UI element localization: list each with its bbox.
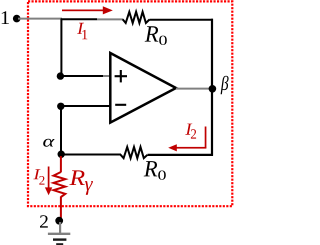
current arrow I1	[62, 6, 113, 14]
ground stem	[59, 222, 61, 234]
wire - terminal down to node alpha	[60, 106, 62, 154]
node alpha dot	[58, 151, 65, 158]
node beta dot	[209, 85, 217, 93]
wire - terminal to op-amp	[61, 105, 110, 107]
wire resistor to bottom-right corner	[148, 154, 214, 156]
wire junction down to op-amp + input	[60, 19, 62, 77]
resistor R0 (bottom)	[121, 147, 148, 158]
current arrow I2 (right, pointing left)	[168, 127, 206, 152]
label R-gamma	[69, 170, 84, 185]
op-amp + sign	[115, 70, 127, 82]
op-amp + input terminal dot	[57, 72, 64, 79]
resistor R0 (top)	[123, 12, 150, 23]
wire resistor to top-right corner	[150, 19, 214, 21]
wire node beta down to bottom-right corner	[211, 89, 213, 156]
current arrow I2 (left, pointing down)	[45, 167, 52, 196]
wire node1 to junction (gray lead)	[18, 18, 62, 20]
resistor R-gamma lead down to node 2	[60, 197, 62, 219]
ground bar 3	[56, 243, 63, 245]
wire + terminal to op-amp (black part)	[61, 75, 103, 77]
node 1 terminal dot	[13, 15, 21, 23]
ground bar 2	[53, 238, 66, 240]
resistor R-gamma zigzag	[54, 172, 66, 197]
resistor R-gamma (red, vertical) lead from alpha	[60, 156, 62, 172]
op-amp U1 triangle	[110, 53, 176, 123]
dashed feedback-network boundary box	[28, 1, 232, 206]
resistor R0 top left lead (gray)	[97, 18, 123, 20]
label I2 (left)	[33, 169, 44, 184]
op-amp output lead (gray) to node beta	[176, 88, 210, 90]
port label 2	[40, 215, 48, 227]
port label 1	[2, 11, 9, 24]
label I2 (right)	[185, 124, 196, 139]
node 2 terminal dot	[55, 217, 63, 225]
label R0 (bottom)	[144, 161, 158, 176]
wire junction to resistor R0 top	[61, 18, 97, 20]
op-amp - input terminal dot	[57, 103, 64, 110]
op-amp + input lead (gray stub)	[103, 75, 110, 77]
label alpha	[43, 139, 54, 147]
op-amp - sign	[115, 104, 126, 106]
label R0 (top)	[145, 26, 159, 41]
ground bar 1	[48, 233, 70, 235]
wire right vertical (top corner down to node beta)	[211, 19, 213, 89]
label beta	[221, 76, 229, 95]
wire node alpha to resistor R0 bottom	[61, 154, 121, 156]
label I1	[77, 23, 87, 39]
